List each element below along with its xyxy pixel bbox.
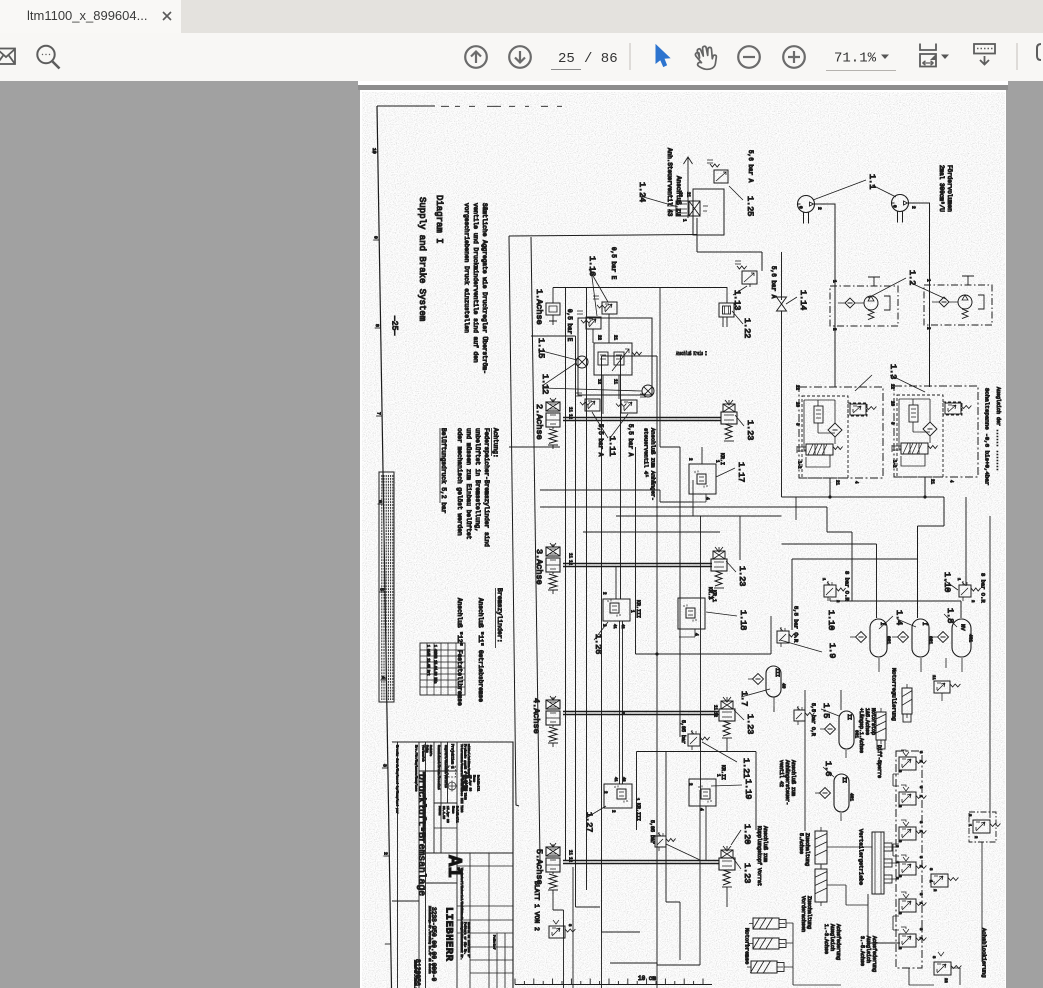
relay valve 1.23 axle2 bbox=[721, 400, 737, 441]
svg-text:1.3: 1.3 bbox=[888, 364, 898, 379]
valve column port wires bbox=[893, 774, 899, 930]
svg-text:Verkaufsb: Verkaufsb bbox=[422, 745, 426, 762]
wire pump2 to circuit2 bbox=[909, 203, 930, 387]
wire 1.12 down b bbox=[618, 375, 620, 399]
svg-text:09.04/Obt: 09.04/Obt bbox=[464, 775, 468, 791]
wire vert x868 bbox=[868, 894, 900, 943]
label 1.17 bbox=[716, 462, 746, 482]
svg-text:1.18: 1.18 bbox=[738, 610, 748, 630]
page down icon bbox=[509, 46, 531, 68]
right separator bbox=[1016, 43, 1018, 70]
svg-text:I: I bbox=[921, 622, 928, 626]
svg-text:0,5 bar E: 0,5 bar E bbox=[566, 309, 573, 342]
motor reg valve bbox=[931, 675, 960, 701]
svg-text:1.9: 1.9 bbox=[827, 643, 837, 658]
wire bus v620 bbox=[620, 356, 622, 599]
svg-text:1.-3.Achse: 1.-3.Achse bbox=[823, 924, 829, 954]
label 5,6 bar A mid bbox=[770, 266, 777, 299]
label Diff-Sperre bbox=[876, 745, 882, 778]
svg-text:unbelüftet in Bremsstellung,: unbelüftet in Bremsstellung, bbox=[474, 428, 481, 532]
valve 1.14 bowtie bbox=[777, 252, 787, 497]
wire h516 bbox=[616, 515, 782, 517]
svg-text:Anschluß "12" Feststellbrems: Anschluß "12" Feststellbremse bbox=[456, 598, 463, 706]
motor reg cylinder bbox=[902, 684, 912, 722]
diff sperre cylinder bbox=[876, 708, 886, 749]
svg-text:5.Achse: 5.Achse bbox=[534, 849, 544, 885]
svg-text:22: 22 bbox=[943, 978, 947, 983]
label Schaltspanne bbox=[984, 388, 991, 485]
wire bus v565 bbox=[565, 288, 567, 861]
brake chamber axle1 bbox=[546, 288, 560, 326]
valve near 1.5 bbox=[794, 706, 815, 725]
wire pump1 to circuit1 bbox=[815, 204, 836, 387]
svg-text:2: 2 bbox=[911, 206, 917, 209]
svg-text:1 4180B 15.04.86 MKa: 1 4180B 15.04.86 MKa bbox=[434, 645, 438, 683]
wire right region v805 bbox=[804, 690, 806, 831]
label 1.20 bbox=[731, 824, 752, 845]
title text Diagram I bbox=[434, 195, 444, 244]
label 1.8 bbox=[944, 608, 957, 627]
valve 1.16b bbox=[577, 311, 601, 343]
label 1.7 bbox=[739, 689, 770, 706]
zuschaltung cylinder a bbox=[815, 827, 827, 868]
svg-text:21: 21 bbox=[685, 192, 689, 198]
svg-text:1.14: 1.14 bbox=[798, 290, 808, 310]
svg-text:Geprüft/Checked/Vérifié: Geprüft/Checked/Vérifié bbox=[444, 745, 448, 788]
title block id number bbox=[414, 959, 421, 986]
svg-text:3.-5.Achse: 3.-5.Achse bbox=[859, 936, 865, 966]
svg-text:11: 11 bbox=[567, 850, 571, 856]
label 1.23 axle5 bbox=[733, 858, 752, 883]
wire bus v635 bbox=[635, 447, 637, 654]
scrolling mode icon bbox=[974, 44, 995, 65]
svg-text:12: 12 bbox=[596, 379, 600, 385]
svg-text:Belüftungsdruck 5,2 bar: Belüftungsdruck 5,2 bar bbox=[440, 428, 447, 514]
label 8 bar OR right bbox=[979, 573, 986, 603]
svg-text:5,6 bar A: 5,6 bar A bbox=[747, 150, 754, 183]
label Zuschaltung 5.Achse bbox=[798, 833, 810, 866]
svg-text:11: 11 bbox=[712, 705, 716, 711]
label 1.25 bbox=[729, 186, 755, 216]
svg-text:11: 11 bbox=[567, 553, 571, 559]
vent arrow to trailer control valve bbox=[684, 157, 693, 218]
single valve mid right bbox=[928, 868, 958, 892]
wire exit 21 right bbox=[924, 477, 926, 498]
wire zusch b bbox=[827, 885, 868, 905]
svg-text:12: 12 bbox=[567, 857, 571, 863]
svg-text:1.25: 1.25 bbox=[745, 196, 755, 216]
label 1.2 bbox=[868, 270, 946, 299]
wire bottom drop c bbox=[572, 867, 574, 988]
label 1.27 bbox=[584, 806, 606, 832]
label Achsblockierung bbox=[980, 928, 987, 978]
compressor pump 1.1 left bbox=[798, 196, 823, 224]
magnifier icon bbox=[37, 46, 59, 69]
label Anschluss Kreis I bbox=[676, 351, 707, 357]
svg-text:7: 7 bbox=[376, 412, 382, 415]
wire relay5 down bbox=[726, 887, 728, 907]
wire x693 v bbox=[692, 480, 694, 516]
title block text A1 bbox=[443, 855, 465, 878]
svg-text:5,5 bar A: 5,5 bar A bbox=[627, 424, 634, 457]
title text Supply and Brake System bbox=[417, 197, 427, 321]
tab bar bbox=[0, 0, 1043, 33]
drawing frame top border bbox=[377, 105, 562, 107]
label Anschluss zum Anhaenger bbox=[642, 428, 656, 501]
svg-text:II: II bbox=[841, 777, 847, 783]
label KR.I axle3 bbox=[707, 587, 713, 599]
svg-text:Pattern or die No.: Pattern or die No. bbox=[463, 922, 467, 955]
motorbremse cylinder a bbox=[749, 918, 786, 929]
wire bus v601 bbox=[602, 356, 641, 932]
svg-text:2.Achse: 2.Achse bbox=[534, 404, 544, 440]
valve 1.13 bbox=[735, 252, 762, 287]
svg-text:Schaltspanne -0,6 bis+0,4bar: Schaltspanne -0,6 bis+0,4bar bbox=[984, 388, 991, 485]
svg-text:5,85 bar: 5,85 bar bbox=[680, 720, 686, 744]
wire 1.24 branch bbox=[697, 218, 762, 270]
scale ruler 10cm bbox=[515, 975, 712, 985]
air tank I601 a bbox=[850, 619, 892, 672]
svg-text:5,5 bar O.R: 5,5 bar O.R bbox=[792, 606, 799, 643]
svg-text:Diff-Sperre: Diff-Sperre bbox=[876, 745, 882, 778]
wire III40 up bbox=[771, 616, 774, 712]
svg-text:Modell od. Gesenk Nr.: Modell od. Gesenk Nr. bbox=[460, 922, 464, 960]
wire 1.12 down a bbox=[602, 375, 604, 414]
label 1.11 bbox=[592, 412, 628, 456]
svg-text:4: 4 bbox=[699, 808, 705, 811]
svg-text:0,5 bar E: 0,5 bar E bbox=[610, 247, 617, 280]
svg-text:23: 23 bbox=[889, 401, 893, 407]
svg-text:Ausgleich der ...... .......: Ausgleich der ...... ....... bbox=[995, 387, 1001, 471]
svg-text:Motorregulierung: Motorregulierung bbox=[890, 668, 897, 721]
note Achtung line1 bbox=[483, 428, 490, 547]
circuit protection 1.3 left bbox=[794, 385, 883, 486]
valve 1.11a bbox=[576, 393, 600, 411]
wire 1.26 up bbox=[615, 567, 617, 599]
label Anschluss zu bbox=[675, 176, 682, 216]
valve 1.9 bbox=[777, 627, 799, 647]
relay valve 1.23 axle4 bbox=[719, 697, 735, 738]
label 1.15 bbox=[536, 338, 577, 360]
svg-text:1.4: 1.4 bbox=[894, 610, 904, 625]
label 1.10 left bbox=[826, 610, 836, 630]
wire bus y497 bbox=[782, 496, 945, 498]
svg-text:401: 401 bbox=[849, 793, 855, 801]
wire transfer links bbox=[884, 847, 899, 879]
label 1.6 bbox=[823, 761, 834, 777]
wire h336 bbox=[531, 335, 576, 337]
wire far right v bbox=[981, 842, 983, 962]
label 1.23 axle2 bbox=[735, 415, 755, 440]
label Achsfederung 35 bbox=[859, 936, 877, 972]
label 1.10 right bbox=[942, 572, 958, 592]
valve box 1.27 bbox=[602, 777, 638, 813]
hand icon bbox=[695, 46, 716, 69]
svg-text:+Längsp.1.Achse: +Längsp.1.Achse bbox=[858, 708, 864, 753]
title block drawing number bbox=[430, 907, 437, 982]
wire bus v680 bbox=[679, 447, 681, 737]
svg-text:Schäfe: Schäfe bbox=[429, 745, 433, 756]
wire mesh h507 bbox=[540, 507, 852, 601]
svg-text:oder mechanisch gelöst werden: oder mechanisch gelöst werden bbox=[456, 428, 463, 536]
wire bus v666 bbox=[665, 752, 667, 903]
svg-text:42: 42 bbox=[621, 777, 625, 782]
wire h516 ext bbox=[781, 497, 783, 516]
tab close x bbox=[160, 9, 174, 23]
svg-text:Kupplungskopf Vorrat: Kupplungskopf Vorrat bbox=[756, 826, 762, 886]
wire h751 bbox=[637, 752, 757, 831]
wire bus v575 bbox=[576, 336, 601, 907]
svg-text:41: 41 bbox=[612, 624, 616, 629]
svg-text:1.22: 1.22 bbox=[742, 318, 752, 338]
motorbremse cylinder c bbox=[747, 961, 784, 973]
svg-text:11: 11 bbox=[931, 675, 935, 680]
drawing frame left border bbox=[377, 106, 392, 988]
label Anschluss 12 Feststellbremse bbox=[456, 598, 463, 706]
frame ruler tick marks bbox=[371, 148, 391, 944]
axle suspension valve column bbox=[896, 750, 926, 968]
svg-text:vorgeschriebenen Druck einzust: vorgeschriebenen Druck einzustellen bbox=[463, 203, 470, 333]
label 55barOR 1.9 bbox=[792, 606, 799, 643]
wire axle5 double line bbox=[563, 850, 719, 864]
zuschaltung cylinder b bbox=[815, 865, 827, 906]
svg-text:III: III bbox=[774, 668, 780, 677]
svg-text:401: 401 bbox=[968, 634, 974, 642]
label Anschluss Anhaengersteuer bbox=[778, 760, 796, 805]
label 2.Achse bbox=[534, 404, 544, 440]
wire relay4 down bbox=[726, 738, 728, 752]
svg-text:8 bar O.R: 8 bar O.R bbox=[979, 573, 986, 603]
svg-text:2: 2 bbox=[383, 852, 389, 855]
svg-text:1.11: 1.11 bbox=[607, 436, 617, 456]
svg-text:1.23: 1.23 bbox=[742, 863, 752, 883]
svg-text:8 bar O.R: 8 bar O.R bbox=[843, 571, 850, 601]
air tank II601 bbox=[820, 711, 860, 758]
wire mesh h544 bbox=[782, 544, 877, 618]
note Achtung heading bbox=[492, 428, 500, 458]
svg-text:1.10: 1.10 bbox=[826, 610, 836, 630]
wire col down bbox=[909, 968, 934, 985]
valve 1.22 bbox=[719, 287, 734, 327]
wire 1.26 to 1.27 a bbox=[619, 621, 621, 784]
svg-text:42: 42 bbox=[620, 624, 624, 629]
circle drain right bbox=[642, 385, 654, 397]
hand brake valve block 1.12 bbox=[594, 343, 642, 375]
wire bottom drop b bbox=[553, 893, 564, 988]
label 1.22 bbox=[732, 311, 752, 338]
axle 3 actuator bbox=[546, 543, 560, 594]
label 8 bar OR left bbox=[843, 571, 850, 601]
svg-text:Ersatz durch/Replaced by/Rempl: Ersatz durch/Replaced by/Remplacé par bbox=[396, 745, 400, 814]
note Achtung line4 bbox=[456, 428, 463, 536]
svg-text:Federspeicher-Bremszylinder si: Federspeicher-Bremszylinder sind bbox=[483, 428, 490, 547]
wire right v990 bbox=[989, 516, 991, 818]
svg-text:1 0143 12.05 Drt: 1 0143 12.05 Drt bbox=[427, 645, 431, 676]
junction dot h654 bbox=[656, 653, 659, 656]
wire axle3 double line bbox=[563, 553, 712, 567]
label KR.II bbox=[715, 765, 726, 780]
svg-text:21: 21 bbox=[834, 480, 838, 486]
svg-text:5,85 bar: 5,85 bar bbox=[649, 820, 655, 844]
svg-text:Datum: Datum bbox=[438, 806, 442, 815]
svg-text:1.21: 1.21 bbox=[741, 758, 751, 778]
label 1.Achse bbox=[534, 289, 544, 325]
svg-text:4.Achse: 4.Achse bbox=[531, 698, 541, 734]
svg-text:12: 12 bbox=[567, 560, 571, 566]
revision table bbox=[420, 643, 465, 695]
svg-text:0: 0 bbox=[798, 206, 804, 209]
valve box 1.18 bbox=[678, 598, 705, 637]
svg-text:41: 41 bbox=[613, 777, 617, 782]
svg-text:8: 8 bbox=[374, 324, 380, 327]
svg-text:Ort/Datum: Ort/Datum bbox=[461, 775, 465, 791]
svg-text:1.23: 1.23 bbox=[745, 714, 755, 734]
axle 2 actuator bbox=[546, 398, 560, 449]
wire x700 v bbox=[700, 516, 702, 790]
valve 1.11b bbox=[616, 394, 646, 413]
svg-text:0: 0 bbox=[892, 205, 898, 208]
svg-text:2mal 300cm³/U: 2mal 300cm³/U bbox=[938, 165, 945, 212]
label KR.I 1.18 bbox=[707, 590, 717, 602]
svg-text:Beschreibung/Description/Dénom: Beschreibung/Description/Dénomination bbox=[422, 772, 426, 841]
label 1.12 bbox=[540, 363, 642, 394]
svg-text:1-2: 1-2 bbox=[796, 461, 800, 469]
air tank I601 b bbox=[892, 619, 934, 672]
wire bottom drop d bbox=[601, 932, 603, 988]
page up icon bbox=[465, 46, 487, 68]
label Foerdervolumen bbox=[946, 165, 953, 212]
label Anschluss 11 Getriebsbremse bbox=[477, 598, 484, 702]
label KR.I 1.17 bbox=[714, 453, 725, 465]
select cursor icon bbox=[656, 45, 670, 67]
svg-text:1.15: 1.15 bbox=[536, 338, 546, 358]
relay valve 1.23 axle3 bbox=[711, 547, 727, 588]
label 0,5 bar E lower bbox=[566, 309, 573, 342]
label KR.III 1.27 bbox=[635, 803, 641, 821]
svg-text:Anschluß Kreis I: Anschluß Kreis I bbox=[676, 351, 707, 357]
wire top right L bbox=[943, 477, 945, 497]
label Zuschaltung Vorderachsen bbox=[800, 896, 812, 932]
fit width icon bbox=[920, 44, 936, 67]
wire nv feed bbox=[965, 497, 967, 586]
valve 1.21 bbox=[680, 720, 737, 762]
svg-text:1.7: 1.7 bbox=[739, 691, 749, 706]
svg-text:5,5 bar O,R: 5,5 bar O,R bbox=[810, 703, 816, 736]
svg-text:Vorderachsen: Vorderachsen bbox=[800, 896, 806, 932]
wire junction h654 bbox=[636, 630, 772, 654]
wire v740 bbox=[739, 516, 741, 560]
note Saemtliche line1 bbox=[481, 203, 488, 374]
port labels 1.12 bbox=[596, 335, 616, 385]
valve box 1.19 bbox=[687, 779, 716, 811]
svg-text:5.Achse: 5.Achse bbox=[798, 833, 804, 854]
air tank NV401 bbox=[932, 619, 974, 672]
page number -25- bbox=[389, 315, 398, 335]
junction dot axle4 bbox=[622, 712, 625, 715]
label 1.1 bbox=[813, 174, 896, 200]
svg-text:22: 22 bbox=[889, 384, 893, 390]
valve 1.10 left bbox=[821, 578, 845, 603]
svg-text:1-2: 1-2 bbox=[891, 460, 895, 468]
svg-text:11: 11 bbox=[567, 407, 571, 413]
label 1.21 bbox=[741, 758, 751, 778]
valve box 1.26 bbox=[601, 592, 633, 629]
svg-text:Schm: Schm bbox=[426, 745, 430, 753]
wire 1.19 down bbox=[705, 806, 707, 860]
svg-text:601: 601 bbox=[886, 636, 892, 644]
svg-text:1.23: 1.23 bbox=[745, 420, 755, 440]
svg-text:1.24: 1.24 bbox=[637, 182, 647, 202]
wire exit 21 left bbox=[829, 478, 831, 498]
svg-text:Poßbrief: Poßbrief bbox=[492, 935, 496, 950]
label 5,6 bar A top bbox=[747, 150, 754, 183]
svg-text:4: 4 bbox=[694, 633, 700, 636]
svg-text:12: 12 bbox=[712, 712, 716, 718]
label 1.4 bbox=[879, 610, 916, 629]
axle 5 actuator bbox=[546, 843, 560, 894]
svg-text:09.4.86: 09.4.86 bbox=[442, 806, 446, 819]
wire left bus vertical B bbox=[531, 237, 540, 860]
wire right region v841 bbox=[840, 690, 842, 710]
svg-text:12: 12 bbox=[567, 414, 571, 420]
label Motorregulierung bbox=[890, 668, 897, 721]
svg-text:21: 21 bbox=[929, 479, 933, 485]
note Achtung line3 bbox=[465, 428, 472, 540]
wire motorbremse bus bbox=[784, 923, 841, 985]
svg-text:Achtung:: Achtung: bbox=[492, 428, 499, 458]
valve far right bbox=[967, 812, 1000, 842]
svg-text:3.Achse: 3.Achse bbox=[534, 549, 544, 585]
svg-text:5,6 bar A: 5,6 bar A bbox=[770, 266, 777, 299]
motorbremse cylinder b bbox=[749, 938, 786, 949]
wire corner x944 bbox=[918, 497, 945, 526]
svg-text:Name: Name bbox=[452, 806, 456, 814]
air tank III40 bbox=[748, 666, 787, 707]
governor 1.2 right box bbox=[924, 276, 992, 330]
air tank II401 bbox=[815, 774, 855, 821]
wire h356 bbox=[602, 355, 658, 357]
label 5,5 bar A right bbox=[627, 424, 634, 457]
wire 1.26 to 1.27 b bbox=[622, 621, 624, 784]
separator bbox=[629, 43, 631, 70]
envelope icon bbox=[0, 49, 15, 65]
valve 1.24 bbox=[667, 192, 708, 222]
svg-text:22: 22 bbox=[596, 335, 600, 341]
wire main top bus bbox=[509, 235, 697, 237]
wire axle4 double line bbox=[563, 705, 719, 718]
svg-text:10: 10 bbox=[371, 148, 377, 154]
note Saemtliche line2 bbox=[472, 203, 479, 363]
svg-text:1.20: 1.20 bbox=[742, 824, 752, 844]
label 4.Achse bbox=[531, 698, 541, 734]
svg-text:BLATT 1 VON 2: BLATT 1 VON 2 bbox=[533, 881, 540, 931]
svg-text:22: 22 bbox=[677, 192, 681, 198]
svg-text:1.8: 1.8 bbox=[945, 608, 955, 623]
wire 110L bottom bbox=[830, 598, 961, 618]
svg-text:ventil 42: ventil 42 bbox=[778, 760, 784, 787]
wire axle1 header bbox=[553, 287, 727, 289]
svg-text:1.19: 1.19 bbox=[743, 779, 753, 799]
wire bus v586 bbox=[586, 288, 588, 891]
svg-text:Zeichnungs-Nr./Drawing No./N°: Zeichnungs-Nr./Drawing No./N° du dessin bbox=[428, 906, 432, 974]
zoom out icon bbox=[738, 46, 760, 68]
wire zusch a bbox=[827, 846, 872, 848]
svg-text:Anh.Steuerventil 43: Anh.Steuerventil 43 bbox=[666, 148, 673, 217]
svg-text:ventile und Druckminderventile: ventile und Druckminderventile sind auf … bbox=[472, 203, 479, 363]
valve bottom right corner bbox=[931, 952, 961, 983]
title block small labels bbox=[396, 744, 497, 988]
svg-text:II: II bbox=[846, 714, 852, 720]
